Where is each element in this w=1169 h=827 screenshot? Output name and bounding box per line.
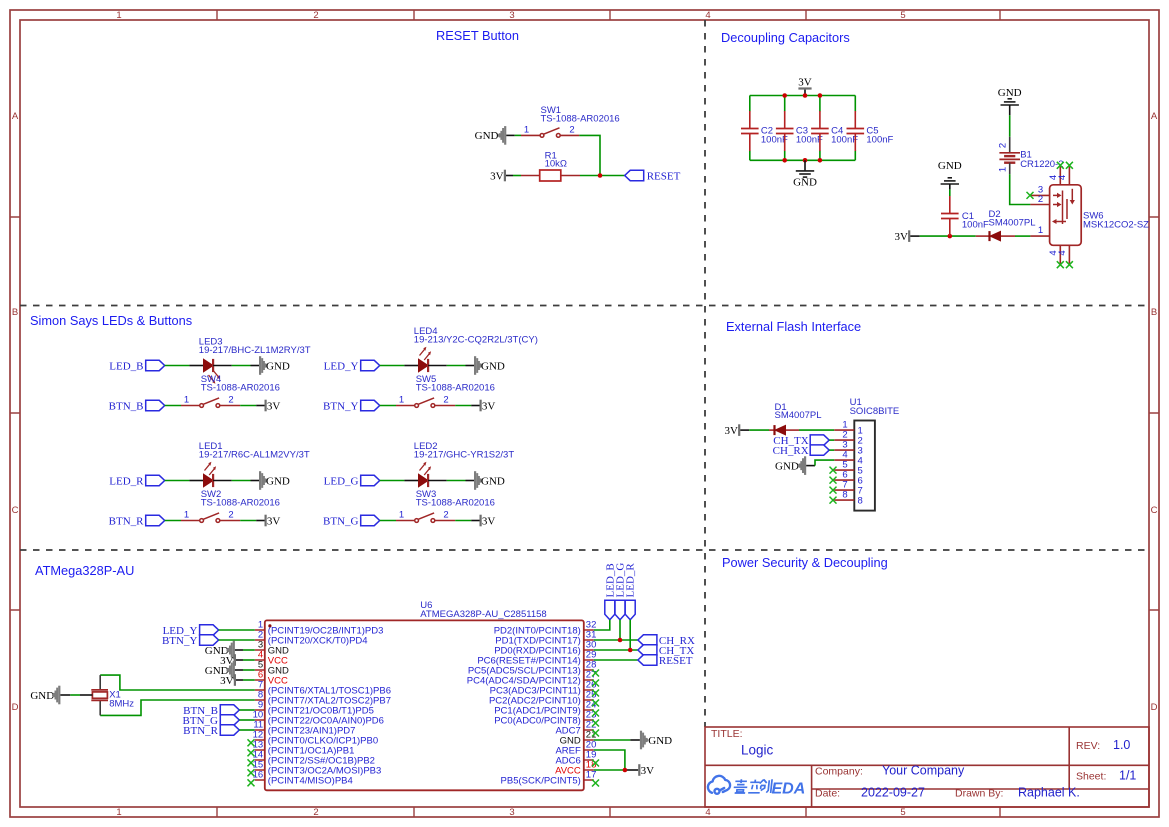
- wire pin 20 AREF to AVCC net: [594, 750, 625, 770]
- JLCEDA logo glyph jia: [733, 779, 748, 793]
- wire D2 to SW6 pin 1: [1015, 235, 1030, 237]
- svg-text:10kΩ: 10kΩ: [545, 159, 567, 170]
- power port 3V (U6 pin 18): [638, 764, 654, 777]
- capacitor C2: [741, 111, 759, 151]
- svg-text:Power Security & Decoupling: Power Security & Decoupling: [722, 555, 888, 570]
- U6 right pin names: [467, 625, 581, 786]
- wire LED3 to GND: [213, 365, 232, 367]
- net port LED_Y (U6 pin 1): [163, 625, 219, 637]
- svg-text:1: 1: [184, 510, 189, 521]
- svg-text:19-217/GHC-YR1S2/3T: 19-217/GHC-YR1S2/3T: [414, 449, 515, 460]
- svg-text:External Flash Interface: External Flash Interface: [726, 319, 861, 334]
- wire SW5 to 3V: [435, 405, 455, 407]
- power port GND (LED1): [259, 471, 290, 490]
- power port GND (crystal case): [30, 686, 92, 705]
- wire R1 to RESET port: [580, 175, 625, 177]
- wire 3V to D2: [910, 235, 919, 237]
- ruler tick marks right: [1149, 217, 1159, 610]
- ground symbol (cap bank): [793, 160, 817, 188]
- pin 1 lead of D2: [1001, 235, 1015, 237]
- wire LED_Y to LED4: [380, 365, 405, 367]
- svg-text:2: 2: [313, 10, 318, 21]
- junction RESET net: [598, 173, 603, 178]
- wire LED_Y to pin 1: [219, 629, 255, 631]
- net port LED_B: [109, 360, 164, 372]
- LED LED3: [204, 359, 214, 372]
- pin 1 lead of R1: [521, 175, 540, 177]
- wire LED_G down to CH_RX net: [619, 620, 621, 640]
- junction dots cap bank top rail: [782, 93, 787, 98]
- wire SW2 to 3V: [220, 520, 240, 522]
- U6 left pin leads 1-16: [255, 630, 265, 780]
- svg-text:TITLE:: TITLE:: [711, 728, 743, 740]
- pin 2 lead of B1: [1009, 137, 1011, 153]
- svg-text:4: 4: [705, 807, 710, 818]
- SW6 pin 4 top-right: [1068, 167, 1070, 185]
- svg-text:Logic: Logic: [741, 743, 774, 758]
- ground symbol above battery B1: [998, 87, 1022, 116]
- wire LED4 to GND: [428, 365, 447, 367]
- svg-text:4: 4: [1057, 175, 1068, 180]
- no-connect X (U1 pin 5): [830, 467, 837, 474]
- svg-text:A: A: [12, 111, 19, 122]
- svg-text:RESET: RESET: [659, 655, 693, 667]
- svg-text:1: 1: [998, 167, 1009, 172]
- title block row line under Company: [812, 788, 1149, 790]
- power port GND (U6 pin 5): [205, 661, 255, 680]
- pin 2 lead of D1: [769, 429, 775, 431]
- svg-text:3V: 3V: [267, 515, 281, 527]
- svg-text:19-217/BHC-ZL1M2RY/3T: 19-217/BHC-ZL1M2RY/3T: [199, 345, 311, 356]
- svg-text:SM4007PL: SM4007PL: [775, 410, 822, 421]
- pin 2 lead of R1: [561, 175, 580, 177]
- wire pin 18 AVCC to 3V: [594, 769, 625, 771]
- vertical net port LED_R (U6 pin 30): [625, 563, 637, 620]
- battery B1: [999, 153, 1020, 163]
- svg-text:LED_Y: LED_Y: [324, 360, 359, 372]
- svg-text:Decoupling Capacitors: Decoupling Capacitors: [721, 30, 850, 45]
- power port 3V (cap bank): [798, 77, 812, 96]
- crystal X1 bottom pin: [99, 700, 101, 715]
- svg-text:2: 2: [228, 395, 233, 406]
- net port BTN_B: [109, 400, 165, 412]
- wire pin 31 to CH_RX: [594, 639, 638, 641]
- switch SW2: [200, 513, 220, 523]
- junction LED_G/CH_RX: [618, 638, 623, 643]
- no-connect X (U6 pin 13): [248, 749, 255, 756]
- no-connect X (U6 pin 28): [592, 670, 599, 677]
- pin 2 lead of D2: [976, 235, 990, 237]
- switch SW5: [415, 398, 435, 408]
- section divider dashed horizontal line upper: [20, 305, 1149, 307]
- svg-text:2: 2: [443, 510, 448, 521]
- wire LED_G to LED2: [380, 480, 405, 482]
- svg-text:GND: GND: [775, 460, 799, 472]
- net port RESET (U6): [638, 655, 693, 667]
- title block row line under TITLE: [705, 764, 1149, 766]
- no-connect X (U6 pin 24): [592, 710, 599, 717]
- wire BTN_R to SW2: [165, 520, 181, 522]
- svg-text:1: 1: [399, 510, 404, 521]
- ruler row letters left: [12, 111, 19, 713]
- LED2 arrows: [420, 462, 432, 475]
- SW6 pin 4 bottom-left: [1059, 245, 1061, 263]
- LED1 arrows: [205, 462, 217, 475]
- JLCEDA logo cloud: [708, 776, 730, 794]
- svg-text:3V: 3V: [895, 231, 909, 243]
- svg-text:2: 2: [228, 510, 233, 521]
- no-connect X (U6 pin 15): [248, 769, 255, 776]
- wire 3V to R1: [506, 175, 513, 177]
- svg-text:Your Company: Your Company: [882, 764, 965, 778]
- svg-text:ATMEGA328P-AU_C2851158: ATMEGA328P-AU_C2851158: [420, 609, 546, 620]
- vertical net port LED_B (U6 pin 32): [604, 563, 616, 619]
- title block REV column line: [1068, 727, 1070, 789]
- svg-text:1: 1: [184, 395, 189, 406]
- no-connect X (U1 pin 8): [830, 497, 837, 504]
- svg-text:19-217/R6C-AL1M2VY/3T: 19-217/R6C-AL1M2VY/3T: [199, 449, 310, 460]
- svg-text:CH_RX: CH_RX: [773, 445, 809, 457]
- LED3 arrows: [209, 371, 221, 384]
- wire pin 30 to CH_TX: [594, 649, 638, 651]
- net port CH_TX (U6): [638, 645, 695, 657]
- svg-text:C: C: [12, 505, 19, 516]
- svg-text:(PCINT4/MISO)PB4: (PCINT4/MISO)PB4: [268, 775, 353, 786]
- svg-text:3V: 3V: [798, 77, 812, 89]
- wire bottom rail of cap bank: [750, 159, 856, 161]
- svg-text:LED_R: LED_R: [625, 563, 637, 598]
- junction AREF/AVCC: [623, 768, 628, 773]
- svg-text:TS-1088-AR02016: TS-1088-AR02016: [416, 497, 495, 508]
- no-connect X (U6 pin 19): [592, 760, 599, 767]
- U1 outside pin numbers: [842, 419, 847, 500]
- svg-text:1: 1: [524, 124, 529, 135]
- power port GND (reset circuit): [475, 126, 507, 145]
- wire SW4 to 3V: [220, 405, 240, 407]
- net port LED_R: [109, 475, 164, 487]
- SW6 internal contacts: [1052, 189, 1075, 224]
- pin 1 lead of D1: [786, 429, 799, 431]
- U6 left pin numbers: [253, 619, 264, 780]
- svg-text:100nF: 100nF: [866, 135, 893, 146]
- svg-text:GND: GND: [793, 177, 817, 189]
- svg-text:BTN_R: BTN_R: [183, 725, 219, 737]
- power port GND (flash): [775, 456, 806, 475]
- switch SW4: [200, 398, 220, 408]
- title block outline: [705, 727, 1149, 807]
- diode D1: [775, 425, 786, 435]
- svg-text:GND: GND: [266, 360, 290, 372]
- JLCEDA logo glyph li: [748, 780, 761, 793]
- svg-text:D: D: [12, 702, 19, 713]
- svg-text:RESET Button: RESET Button: [436, 28, 519, 43]
- wire crystal XTAL2 to U6 pin 8: [100, 700, 255, 715]
- svg-text:Drawn By:: Drawn By:: [955, 788, 1003, 800]
- svg-text:GND: GND: [938, 160, 962, 172]
- wire battery pin1 to SW6 pin 2: [1010, 174, 1031, 204]
- svg-text:2: 2: [998, 143, 1009, 148]
- net port LED_Y: [324, 360, 380, 372]
- wire BTN_Y to SW5: [380, 405, 396, 407]
- junction dots cap bank bottom rail: [782, 158, 787, 163]
- svg-text:B: B: [12, 307, 18, 318]
- IC U1 body: [854, 421, 875, 511]
- svg-text:BTN_R: BTN_R: [109, 515, 145, 527]
- net port BTN_Y (U6 pin 2): [162, 635, 219, 647]
- svg-text:1: 1: [116, 10, 121, 21]
- svg-text:GND: GND: [998, 87, 1022, 99]
- no-connect X (U6 pin 17): [592, 780, 599, 787]
- no-connect X (SW6 pin4 top-right): [1066, 162, 1073, 169]
- svg-text:GND: GND: [481, 475, 505, 487]
- net port CH_TX (flash): [773, 435, 834, 447]
- no-connect X (U6 pin 23): [592, 720, 599, 727]
- LED LED2: [419, 474, 429, 487]
- no-connect X (SW6 pin4 bottom-right): [1066, 261, 1073, 268]
- U1 pin leads 1-8: [834, 430, 854, 500]
- U6 right pin numbers: [586, 619, 597, 780]
- capacitor C5: [847, 111, 865, 151]
- net port BTN_B (U6 pin 9): [183, 705, 255, 717]
- power port GND (U6 pin 3): [205, 641, 255, 660]
- pin 1 lead of SW1: [521, 134, 540, 136]
- svg-text:100nF: 100nF: [962, 220, 989, 231]
- svg-text:3V: 3V: [267, 400, 281, 412]
- wire top rail of cap bank: [750, 95, 856, 97]
- svg-text:8: 8: [842, 489, 847, 500]
- svg-text:TS-1088-AR02016: TS-1088-AR02016: [416, 382, 495, 393]
- U1 inside pin names: [858, 426, 863, 507]
- svg-text:8: 8: [858, 496, 863, 507]
- svg-text:RESET: RESET: [647, 170, 681, 182]
- no-connect X (U6 pin 16): [248, 779, 255, 786]
- svg-text:5: 5: [900, 10, 905, 21]
- svg-text:ATMega328P-AU: ATMega328P-AU: [35, 563, 134, 578]
- svg-text:1: 1: [116, 807, 121, 818]
- svg-text:MSK12CO2-SZ: MSK12CO2-SZ: [1083, 220, 1149, 231]
- svg-text:1: 1: [399, 395, 404, 406]
- wire GND to SW1 pin 1: [506, 134, 514, 136]
- power port 3V (U6 pin 6): [220, 674, 255, 687]
- power port 3V (flash): [724, 424, 740, 437]
- svg-text:TS-1088-AR02016: TS-1088-AR02016: [201, 497, 280, 508]
- svg-text:2: 2: [1038, 194, 1043, 205]
- wire GND to U1 pin 4: [806, 465, 815, 467]
- net port BTN_R (U6 pin 11): [183, 725, 255, 737]
- svg-text:4: 4: [705, 10, 710, 21]
- section divider dashed vertical line: [704, 20, 706, 727]
- title block logo column line: [811, 765, 813, 807]
- svg-text:3V: 3V: [482, 400, 496, 412]
- svg-text:D: D: [1151, 702, 1158, 713]
- ruler column numbers top: [116, 10, 905, 21]
- svg-text:A: A: [1151, 111, 1158, 122]
- net port BTN_R: [109, 515, 165, 527]
- no-connect X (U6 pin 25): [592, 700, 599, 707]
- wire LED_R to LED1: [165, 480, 190, 482]
- wire LED_B to LED3: [165, 365, 190, 367]
- svg-text:4: 4: [1057, 250, 1068, 255]
- svg-text:BTN_Y: BTN_Y: [323, 400, 359, 412]
- svg-text:3: 3: [509, 10, 514, 21]
- svg-text:C: C: [1151, 505, 1158, 516]
- power port GND (LED3): [259, 356, 290, 375]
- ground symbol above C1: [938, 160, 962, 189]
- ruler column numbers bottom: [116, 807, 905, 818]
- no-connect X (U6 pin 12): [248, 739, 255, 746]
- svg-text:Date:: Date:: [815, 788, 840, 800]
- power port GND (LED2): [474, 471, 505, 490]
- vertical net port LED_G (U6 pin 31): [615, 563, 627, 620]
- junction C1/3V: [948, 234, 953, 239]
- svg-text:8MHz: 8MHz: [109, 698, 134, 709]
- wire BTN_G to SW3: [380, 520, 396, 522]
- svg-text:17: 17: [586, 769, 597, 780]
- resistor R1: [540, 170, 561, 181]
- wire LED1 to GND: [213, 480, 232, 482]
- svg-text:Raphael K.: Raphael K.: [1018, 786, 1080, 800]
- power port 3V (battery backup row): [895, 230, 911, 243]
- no-connect X (U6 pin 14): [248, 759, 255, 766]
- pin 2 lead of SW1: [560, 134, 579, 136]
- wire SW1 pin2 to RESET net corner: [579, 135, 600, 175]
- switch SW3: [415, 513, 435, 523]
- svg-text:2: 2: [569, 124, 574, 135]
- U6 pin-1 indicator dot: [268, 624, 271, 627]
- wire pin 29 to RESET: [594, 659, 638, 661]
- SW6 pin 3: [1031, 194, 1050, 196]
- svg-text:TS-1088-AR02016: TS-1088-AR02016: [541, 114, 620, 125]
- capacitor C1: [941, 196, 959, 236]
- svg-text:BTN_B: BTN_B: [109, 400, 144, 412]
- no-connect X (U1 pin 7): [830, 487, 837, 494]
- wire LED_R down to CH_TX net: [629, 620, 631, 650]
- svg-text:GND: GND: [266, 475, 290, 487]
- LED4 arrows: [420, 347, 432, 360]
- svg-text:2: 2: [443, 395, 448, 406]
- svg-text:3: 3: [509, 807, 514, 818]
- svg-text:GND: GND: [481, 360, 505, 372]
- wire D1 to U1 pin 1: [799, 429, 834, 431]
- svg-text:PB5(SCK/PCINT5): PB5(SCK/PCINT5): [501, 775, 581, 786]
- svg-text:GND: GND: [30, 690, 54, 702]
- net port BTN_Y: [323, 400, 380, 412]
- svg-text:GND: GND: [648, 735, 672, 747]
- svg-text:TS-1088-AR02016: TS-1088-AR02016: [201, 382, 280, 393]
- power port 3V (U6 pin 4): [220, 654, 255, 667]
- wire GND to C1: [949, 189, 951, 196]
- power port GND (U6 pin 21): [640, 731, 672, 750]
- capacitor C4: [811, 111, 829, 151]
- JLCEDA logo glyph chuang: [759, 779, 772, 793]
- svg-text:LED_R: LED_R: [109, 475, 144, 487]
- wire stubs columns (green): [750, 96, 856, 161]
- svg-text:BTN_G: BTN_G: [323, 515, 359, 527]
- wire crystal XTAL1 to U6 pin 7: [100, 675, 255, 690]
- power port 3V (SW2): [265, 515, 281, 528]
- SW6 pin 2: [1030, 204, 1049, 206]
- svg-text:3V: 3V: [482, 515, 496, 527]
- ruler tick marks left: [10, 217, 20, 610]
- pin 1 lead of B1: [1009, 163, 1011, 175]
- no-connect X (U6 pin 27): [592, 680, 599, 687]
- capacitor C3: [776, 111, 794, 151]
- LED LED4: [419, 359, 429, 372]
- crystal X1 top pin: [99, 675, 101, 690]
- SW6 pin 4 bottom-right: [1068, 245, 1070, 263]
- ruler tick marks top: [217, 10, 1000, 20]
- wire LED_B to pin 32: [594, 620, 610, 630]
- net port CH_RX (flash): [773, 445, 835, 457]
- svg-text:3V: 3V: [724, 425, 738, 437]
- no-connect X (U1 pin 6): [830, 477, 837, 484]
- svg-text:SOIC8BITE: SOIC8BITE: [850, 406, 900, 417]
- power port 3V (SW4): [265, 400, 281, 413]
- U6 left pin names: [268, 625, 391, 786]
- section divider dashed horizontal line lower: [20, 549, 1149, 551]
- wire BTN_Y to pin 2: [219, 639, 255, 641]
- svg-text:100nF: 100nF: [831, 135, 858, 146]
- net port BTN_G: [323, 515, 380, 527]
- wire pin 21 to GND: [594, 739, 631, 741]
- wire 3V to D1: [740, 429, 749, 431]
- switch SW1: [540, 128, 560, 137]
- svg-text:3V: 3V: [220, 675, 234, 687]
- no-connect X (SW6 pin4 top-left): [1057, 162, 1064, 169]
- svg-text:1: 1: [1038, 225, 1043, 236]
- SW6 pin 1: [1030, 235, 1049, 237]
- svg-text:BTN_Y: BTN_Y: [162, 635, 198, 647]
- ruler row letters right: [1151, 111, 1158, 713]
- svg-text:Sheet:: Sheet:: [1076, 771, 1106, 783]
- wire GND to battery pin 2: [1009, 115, 1011, 137]
- no-connect X (U6 pin 22): [592, 730, 599, 737]
- crystal X1 body: [91, 690, 108, 701]
- wire SW3 to 3V: [435, 520, 455, 522]
- no-connect X (U6 pin 26): [592, 690, 599, 697]
- svg-text:SM4007PL: SM4007PL: [989, 218, 1036, 229]
- SW6 pin 4 top-left: [1059, 167, 1061, 185]
- IC U6 body: [265, 620, 584, 790]
- net port BTN_G (U6 pin 10): [183, 715, 255, 727]
- ruler tick marks bottom: [217, 807, 1000, 817]
- net port LED_G: [324, 475, 380, 487]
- power port 3V (SW3): [480, 515, 496, 528]
- switch SW6 body: [1050, 185, 1082, 246]
- svg-text:3V: 3V: [490, 170, 504, 182]
- svg-text:B: B: [1151, 307, 1157, 318]
- svg-text:5: 5: [900, 807, 905, 818]
- svg-text:3V: 3V: [641, 765, 655, 777]
- svg-text:1.0: 1.0: [1113, 738, 1130, 752]
- svg-text:100nF: 100nF: [796, 135, 823, 146]
- net port CH_RX (U6): [638, 635, 695, 647]
- power port GND (LED4): [474, 356, 505, 375]
- no-connect X (SW6 pin4 bottom-left): [1057, 261, 1064, 268]
- power port 3V (reset circuit): [490, 170, 506, 183]
- svg-text:16: 16: [253, 769, 264, 780]
- svg-text:Company:: Company:: [815, 766, 863, 778]
- svg-text:2022-09-27: 2022-09-27: [861, 786, 925, 800]
- no-connect X (SW6 pin3): [1027, 192, 1034, 199]
- junction LED_R/CH_TX: [628, 648, 633, 653]
- svg-text:2: 2: [313, 807, 318, 818]
- diode D2: [990, 231, 1001, 241]
- LED LED1: [204, 474, 214, 487]
- svg-text:Simon Says LEDs & Buttons: Simon Says LEDs & Buttons: [30, 313, 192, 328]
- wire LED2 to GND: [428, 480, 447, 482]
- svg-text:REV:: REV:: [1076, 740, 1100, 752]
